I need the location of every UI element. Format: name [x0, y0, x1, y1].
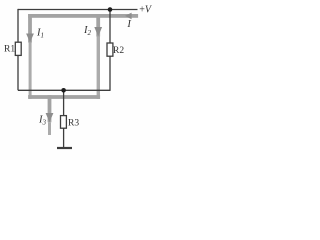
wire: left branch with R1 [17, 9, 19, 90]
wire: gray current path, bottom rail segment [28, 95, 100, 99]
svg-text:I1: I1 [36, 28, 44, 40]
svg-text:I2: I2 [83, 25, 92, 37]
wire: gray current path, top rail segment [28, 14, 138, 18]
wire: R3 branch to ground [63, 90, 65, 147]
svg-text:+V: +V [139, 5, 153, 16]
wire: gray current path, output stub (I3) vertical [48, 95, 52, 122]
svg-text:I3: I3 [38, 115, 47, 127]
node: junction of bottom rail and R3 branch [61, 88, 66, 93]
ground [57, 147, 72, 149]
resistor R3 [61, 116, 67, 129]
svg-text:R1: R1 [4, 45, 15, 55]
svg-text:R2: R2 [113, 46, 124, 56]
arrow: current I2 (pointing down inner right branch) [94, 27, 102, 37]
svg-text:R3: R3 [68, 119, 79, 129]
wire: bottom rail [18, 89, 110, 91]
wire: gray current path, left branch (I1) vertical [28, 14, 32, 43]
arrow: current I3 (pointing down output stub) [46, 113, 54, 122]
arrow: current I1 (pointing down left branch) [26, 34, 34, 43]
wire: right branch with R2 [109, 10, 111, 91]
node: junction of +V rail and R2 branch [108, 7, 113, 12]
resistor R2 [107, 43, 113, 56]
svg-text:I: I [126, 19, 131, 30]
wire: top supply rail (+V) [18, 9, 138, 11]
arrow: current I (pointing left along top path) [125, 13, 132, 20]
resistor R1 [15, 42, 21, 55]
wire: gray current path, inner right branch (I2) vertical [96, 14, 100, 37]
